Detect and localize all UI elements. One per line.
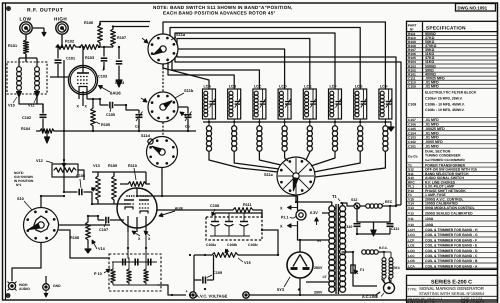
svg-text:C107: C107 (99, 228, 108, 232)
wire LCD secondary to switch (285, 152, 288, 161)
wire R103 to C103 node (99, 46, 113, 48)
svg-text:Ca-Cb: Ca-Cb (408, 155, 417, 159)
wire LCH bottom to rail (384, 119, 386, 122)
wire C107 to 6U8 (117, 219, 124, 221)
svg-text:R111: R111 (243, 203, 252, 207)
wire LCG secondary to switch (314, 152, 360, 172)
P10 resistor 3 (144, 269, 148, 283)
electrolytic C108a (214, 213, 216, 221)
svg-text:LOW: LOW (20, 17, 32, 22)
capacitor C104 (118, 47, 120, 59)
6U8 left triode (124, 203, 134, 205)
svg-text:LCA: LCA (408, 264, 415, 268)
bus wire to LCC (172, 60, 259, 89)
resistor R105 (91, 108, 96, 126)
svg-text:COIL & TRIMMER FOR BAND - E: COIL & TRIMMER FOR BAND - E (425, 244, 478, 248)
svg-text:R106: R106 (84, 21, 93, 25)
wire LCD bottom to rail (284, 119, 286, 122)
svg-text:V12: V12 (36, 159, 43, 163)
wire LCH secondary to switch (315, 152, 385, 177)
svg-text:R110: R110 (128, 164, 137, 168)
pot V12 (52, 164, 78, 177)
6U8 grid dots (127, 196, 128, 197)
wire R107 bottom (112, 46, 114, 47)
wire LCF bottom to rail (334, 119, 336, 122)
wire V15 ends (194, 254, 212, 256)
adjustable resistor V11 (35, 67, 40, 72)
svg-text:C109: C109 (213, 271, 222, 275)
svg-text:C103: C103 (98, 75, 107, 79)
svg-text:V14: V14 (98, 247, 106, 251)
fuse F1 (352, 260, 354, 278)
svg-text:S11c: S11c (264, 172, 274, 177)
T1 tap 290V (327, 290, 330, 292)
svg-text:V11: V11 (408, 217, 414, 221)
svg-text:COIL & TRIMMER FOR BAND - B: COIL & TRIMMER FOR BAND - B (425, 259, 478, 263)
svg-text:C108a: C108a (206, 243, 216, 247)
wire R108 top (87, 216, 89, 222)
svg-text:2500Ω SEALED CALIBRATED: 2500Ω SEALED CALIBRATED (425, 212, 473, 216)
wiper arrow S11b right (180, 112, 186, 116)
bus wire to LCG (170, 28, 360, 90)
secondary coil under LCB (233, 122, 235, 126)
line choke RFC vertical pair (383, 252, 385, 258)
wire LCG bottom to rail (359, 119, 361, 122)
wire P10 bottom out (157, 285, 186, 295)
wire LCA secondary to switch (209, 152, 278, 172)
secondary coil under LCD (284, 122, 286, 126)
svg-text:.01 MFD: .01 MFD (425, 85, 439, 89)
P10 capacitor 3 (147, 259, 149, 266)
ground below R104 (46, 131, 48, 134)
capacitor C109 (194, 279, 202, 281)
resistor R108 (86, 222, 91, 240)
svg-text:C108c - 10 MFD, 450W.V.: C108c - 10 MFD, 450W.V. (425, 108, 465, 112)
svg-text:100Ω: 100Ω (425, 217, 434, 221)
bus wire y131 (64, 130, 196, 132)
svg-text:C108: C108 (408, 103, 416, 107)
wire C106 to V13 (91, 192, 93, 204)
svg-text:LCH: LCH (380, 85, 388, 89)
svg-text:SPECIFICATION: SPECIFICATION (426, 25, 466, 30)
ganged shaft S11a-S11b (162, 64, 164, 92)
svg-text:LCD: LCD (408, 249, 415, 253)
svg-text:5Y3: 5Y3 (277, 287, 285, 292)
svg-text:DWG.NO.1091: DWG.NO.1091 (458, 6, 488, 11)
capacitor C105 (100, 104, 109, 106)
svg-text:P.L1: P.L1 (281, 216, 289, 220)
svg-text:R102: R102 (65, 40, 74, 44)
line choke RFC mid (362, 250, 367, 254)
svg-text:S11b: S11b (184, 88, 194, 93)
trimmer Cb (187, 107, 189, 114)
wire top rail v13 r109 (92, 171, 146, 173)
capacitor C110 (356, 206, 358, 223)
svg-text:Ca=75MMFD Cb=365MMFD: Ca=75MMFD Cb=365MMFD (425, 158, 465, 162)
wire bottom bus to plug (299, 292, 380, 295)
resistor R109 (112, 176, 117, 200)
svg-text:RFC: RFC (394, 266, 401, 270)
T1 tap 6.3V (322, 212, 329, 214)
wire R106 bottom (99, 43, 101, 47)
wire LCB secondary to switch (234, 152, 279, 169)
wire C109 bottom (193, 255, 195, 292)
wire S11c down to T1 (296, 195, 332, 206)
dashed box C108 (206, 217, 262, 240)
line choke RFC top (366, 204, 371, 208)
P10 resistor 1 (111, 269, 115, 283)
electrolytic C108b (228, 213, 230, 221)
bus wire to LCD (178, 49, 285, 89)
svg-text:SERIES E-200 C: SERIES E-200 C (431, 279, 472, 285)
wire crystals top join (19, 57, 37, 59)
svg-text:LCB: LCB (408, 259, 415, 263)
corner rivet bottom-left (6, 294, 10, 298)
svg-text:LCE: LCE (304, 85, 312, 89)
svg-text:R107: R107 (117, 36, 126, 40)
coil-trimmer unit LCF (329, 89, 342, 119)
svg-text:290V: 290V (314, 291, 323, 295)
jack HIGH AUDIO (8, 282, 15, 289)
wire 6AU6 top (82, 47, 84, 69)
svg-text:AUDIO: AUDIO (19, 287, 30, 291)
T1 secondary winding left (329, 206, 335, 212)
wire jack HIGH down (61, 34, 63, 47)
svg-text:C106: C106 (76, 174, 85, 178)
trimmer Ca (138, 110, 140, 114)
svg-text:Nº1: Nº1 (16, 183, 21, 187)
bus wire to LCA (163, 64, 209, 89)
svg-text:C102: C102 (22, 116, 31, 120)
svg-text:C109: C109 (408, 85, 416, 89)
svg-text:COIL & TRIMMER FOR BAND - C: COIL & TRIMMER FOR BAND - C (425, 254, 478, 258)
rotary switch S11c (277, 157, 315, 195)
svg-text:6AU6: 6AU6 (110, 91, 121, 96)
svg-text:A.V.C. VOLTAGE: A.V.C. VOLTAGE (196, 294, 228, 299)
wire S11d down (161, 168, 163, 197)
svg-text:LCG: LCG (355, 85, 363, 89)
svg-text:P 10: P 10 (94, 272, 102, 276)
secondary coil under LCH (384, 122, 386, 126)
svg-text:C104: C104 (115, 81, 125, 85)
svg-text:100Ω: 100Ω (425, 223, 434, 227)
ground at rail right end (388, 122, 394, 131)
svg-text:HIGH: HIGH (54, 17, 67, 22)
coil-trimmer unit LCA (203, 89, 216, 119)
svg-text:F1: F1 (360, 268, 364, 272)
wire F1 to plug (353, 278, 377, 286)
svg-text:GND: GND (53, 284, 61, 288)
wire LCB bottom to rail (233, 119, 235, 122)
bus wire second right rail (175, 57, 401, 205)
coil-trimmer unit LCH (379, 89, 392, 119)
svg-text:Cb: Cb (185, 125, 191, 129)
svg-text:R105: R105 (101, 123, 110, 127)
jack AVC right (243, 292, 249, 298)
svg-text:R.F.C.: R.F.C. (379, 246, 388, 250)
P10 top wire (112, 261, 157, 263)
svg-text:C105: C105 (106, 113, 115, 117)
svg-text:V10: V10 (8, 104, 15, 108)
wire HIGH to R102 (56, 46, 62, 48)
dashed box P10 (109, 254, 161, 291)
svg-text:R103: R103 (85, 56, 94, 60)
svg-text:V10: V10 (408, 223, 414, 227)
svg-text:V12: V12 (408, 212, 414, 216)
capacitor C101 (57, 47, 59, 59)
secondary coil under LCE (309, 122, 311, 126)
svg-text:ELECTROLYTIC FILTER BLOCK: ELECTROLYTIC FILTER BLOCK (425, 91, 477, 95)
resistor R106 (98, 25, 103, 43)
junction dots (25, 27, 27, 29)
secondary coil under LCA (208, 122, 210, 126)
svg-text:COIL & TRIMMER FOR BAND - G: COIL & TRIMMER FOR BAND - G (425, 233, 478, 237)
wire LCC secondary to switch (259, 152, 281, 165)
resistor R101 (23, 40, 28, 54)
adjustable resistor V10 (17, 67, 22, 72)
wire S12 to RFC (360, 205, 366, 207)
svg-text:C108: C108 (210, 204, 219, 208)
svg-text:V13: V13 (93, 164, 100, 168)
capacitor C106 (64, 191, 78, 193)
P10 capacitor 1 (122, 259, 124, 266)
wire x64 V12 to C106 (63, 160, 65, 192)
bus wire B-plus right rail (177, 53, 396, 206)
svg-text:S12: S12 (351, 198, 357, 202)
svg-text:LCF: LCF (408, 238, 414, 242)
wire LCE bottom to rail (309, 119, 311, 122)
svg-text:C111: C111 (391, 227, 399, 231)
capacitor C107 (98, 219, 105, 221)
svg-text:EACH BAND POSITION ADVANCES RO: EACH BAND POSITION ADVANCES ROTOR 45° (163, 11, 276, 16)
coil-trimmer unit LCG (354, 89, 367, 119)
P10 bottom bus (113, 284, 157, 286)
wire left vertical x64 (63, 60, 65, 131)
jack GND (43, 284, 50, 291)
wire C110 C111 bottoms (357, 233, 390, 235)
svg-text:6.3V: 6.3V (310, 211, 318, 215)
wiper arrows S11a (142, 38, 148, 43)
tube V 6AU6 envelope (69, 66, 98, 95)
T1 primary winding right (340, 206, 346, 212)
svg-text:R.F. OUTPUT: R.F. OUTPUT (27, 8, 63, 14)
resistor R107 (111, 29, 116, 46)
wire S10 to audio jack (12, 243, 41, 282)
svg-text:COIL & TRIMMER FOR BAND - A: COIL & TRIMMER FOR BAND - A (425, 264, 478, 268)
wire C105 to Ca (126, 105, 139, 110)
wire between jacks with arrow (33, 27, 44, 29)
svg-text:LCB: LCB (229, 85, 237, 89)
table outer border (407, 21, 498, 269)
rotary switch S11a (148, 34, 178, 64)
common rail under coils (203, 121, 391, 123)
wire RFC mid (342, 251, 354, 253)
svg-text:800Ω MODULATION CONTROL: 800Ω MODULATION CONTROL (425, 206, 475, 210)
ganged shaft S11b-S11d (162, 122, 164, 137)
svg-text:T1: T1 (332, 194, 338, 199)
ground between C110 C111 (373, 222, 375, 230)
wire jack LOW down (25, 34, 27, 40)
capacitor C103 (103, 47, 105, 57)
C108 bottom bus (210, 235, 250, 237)
svg-text:RFC: RFC (385, 200, 393, 204)
wire LCE secondary to switch (306, 152, 310, 160)
resistor R104 (40, 129, 54, 133)
wiper arrow S11b left (141, 98, 147, 102)
svg-text:.01 MFD: .01 MFD (425, 144, 439, 148)
wire R105 bottom to bus (92, 126, 94, 131)
wire to PL1 (162, 195, 298, 197)
T1 tap 5V (327, 239, 329, 241)
wire 5Y3 bottom (299, 278, 301, 295)
electrolytic C108c (243, 213, 245, 221)
wire P10 to 6U8 pins (128, 248, 129, 262)
wire S10 top (40, 196, 42, 208)
wire crystal to tube area (50, 76, 58, 78)
wire LCC bottom to rail (258, 119, 260, 122)
coil-trimmer unit LCB (228, 89, 241, 119)
jack AVC left (190, 292, 196, 298)
svg-text:R101: R101 (8, 44, 17, 48)
svg-text:LCA: LCA (204, 85, 212, 89)
bus wire to LCB (168, 62, 234, 89)
resistor R110 (128, 182, 146, 187)
capacitor C111 (389, 206, 391, 223)
svg-text:LCC: LCC (408, 254, 415, 258)
secondary coil under LCC (258, 122, 260, 126)
wire R107 top bus (113, 27, 149, 30)
svg-text:LCC: LCC (254, 85, 262, 89)
wire R101 to crystal box (25, 54, 27, 62)
coil-trimmer unit LCC (253, 89, 266, 119)
pot V13 (96, 176, 101, 200)
resistor R102 (56, 45, 76, 50)
rotary switch S11b (148, 92, 178, 122)
rotary switch S10 (24, 208, 59, 243)
bus wire to LCF (175, 33, 335, 89)
resistor R103 (80, 45, 99, 50)
6AU6 pins (78, 89, 80, 99)
T1 tap 280V (327, 266, 330, 268)
drawing number box DWG.NO.1091 (456, 4, 496, 12)
ground R108 (87, 240, 89, 244)
svg-text:C108b - 10 MFD, 450W.V.: C108b - 10 MFD, 450W.V. (425, 102, 465, 106)
wire 6U8 plate to R111 (157, 209, 233, 211)
svg-text:C108a= 25 MFD, 25W.V.: C108a= 25 MFD, 25W.V. (425, 96, 463, 100)
svg-text:TYPE:: TYPE: (408, 287, 418, 291)
svg-text:V15: V15 (244, 261, 251, 265)
svg-text:LCG: LCG (408, 233, 415, 237)
svg-text:COIL & TRIMMER FOR BAND - H: COIL & TRIMMER FOR BAND - H (425, 228, 478, 232)
svg-text:S10: S10 (17, 197, 24, 201)
secondary coil under LCG (359, 122, 361, 126)
rotary switch S11d (147, 137, 178, 168)
svg-text:COIL & TRIMMER FOR BAND - D: COIL & TRIMMER FOR BAND - D (425, 249, 478, 253)
T1 core (335, 204, 337, 294)
wire V12 to C106 (78, 170, 84, 180)
jack J2 HIGH (56, 22, 68, 34)
wire 5Y3 to 5V tap (300, 239, 327, 241)
wire R111 to rail (253, 210, 262, 218)
tube V 6U8 envelope (117, 188, 157, 228)
6AU6 cathode (79, 87, 87, 90)
P10 capacitor 2 (134, 259, 136, 266)
tube V 5Y3 envelope (287, 252, 313, 278)
svg-text:LCH: LCH (408, 228, 415, 232)
svg-text:S11d: S11d (141, 134, 151, 138)
6AU6 grids (77, 76, 89, 78)
svg-text:STARTING WITH SERIAL Nº158854: STARTING WITH SERIAL Nº158854 (419, 291, 485, 296)
bus wire to LCH (163, 22, 385, 89)
pot V15 (212, 253, 238, 258)
wire tube cathode to R105 (87, 99, 93, 108)
wire AVC to bottom bus (249, 294, 300, 296)
svg-text:COIL & TRIMMER FOR BAND - F: COIL & TRIMMER FOR BAND - F (425, 238, 477, 242)
svg-text:V13: V13 (408, 206, 414, 210)
svg-text:C101: C101 (408, 144, 416, 148)
title block border (407, 275, 498, 303)
wire S11b to Cb (178, 106, 188, 108)
6U8 right pentode (139, 199, 149, 201)
5Y3 filaments (291, 267, 298, 270)
wire x64 down to V12 (63, 131, 65, 160)
secondary coil under LCF (334, 122, 336, 126)
wire PL1 right (306, 215, 310, 217)
resistor R111 (233, 208, 253, 213)
bus wire to LCE (177, 39, 310, 90)
coil-trimmer unit LCE (303, 89, 316, 119)
wire R104/C102 junction (42, 126, 44, 131)
svg-text:R109: R109 (108, 164, 117, 168)
wire C101 to grid (58, 70, 69, 77)
wire T1 to S12 (343, 203, 354, 206)
pilot lamp PL1 (296, 210, 306, 220)
6AU6 plate (77, 72, 89, 74)
wire S10 right to P10 (59, 224, 111, 226)
wire LCF secondary to switch (311, 152, 335, 166)
svg-text:CT: CT (323, 275, 327, 279)
P10 resistor 2 (127, 269, 131, 283)
C108 top bus (215, 212, 262, 214)
svg-text:R104: R104 (21, 127, 31, 131)
dashed box crystals (7, 62, 47, 94)
coil-trimmer unit LCD (278, 89, 291, 119)
switch S12 (354, 203, 360, 209)
svg-text:R108: R108 (70, 236, 79, 240)
wire crystal bottom to C102 (19, 97, 43, 112)
wire LCA bottom to rail (208, 119, 210, 122)
wire R106 top to switch (100, 22, 150, 26)
svg-text:NOTE: BAND SWITCH S11 SHOWN IN: NOTE: BAND SWITCH S11 SHOWN IN BAND“A”PO… (153, 5, 293, 10)
svg-text:280V: 280V (314, 266, 323, 270)
svg-text:C108c: C108c (248, 243, 258, 247)
svg-text:C101: C101 (66, 57, 75, 61)
svg-text:C108b: C108b (227, 243, 237, 247)
svg-text:C110: C110 (344, 225, 352, 229)
wire V13 R109 bottoms (97, 200, 99, 204)
svg-text:LCE: LCE (408, 244, 415, 248)
svg-text:LCD: LCD (279, 85, 287, 89)
capacitor C102 (42, 104, 44, 114)
6U8 pins (127, 216, 129, 232)
svg-text:LCF: LCF (330, 85, 338, 89)
wire 6U8 top to S11d (136, 188, 138, 196)
AC plug (384, 283, 395, 294)
jack J1 LOW (20, 22, 32, 34)
corner rivet top-left (7, 7, 11, 11)
table column divider (422, 21, 424, 269)
